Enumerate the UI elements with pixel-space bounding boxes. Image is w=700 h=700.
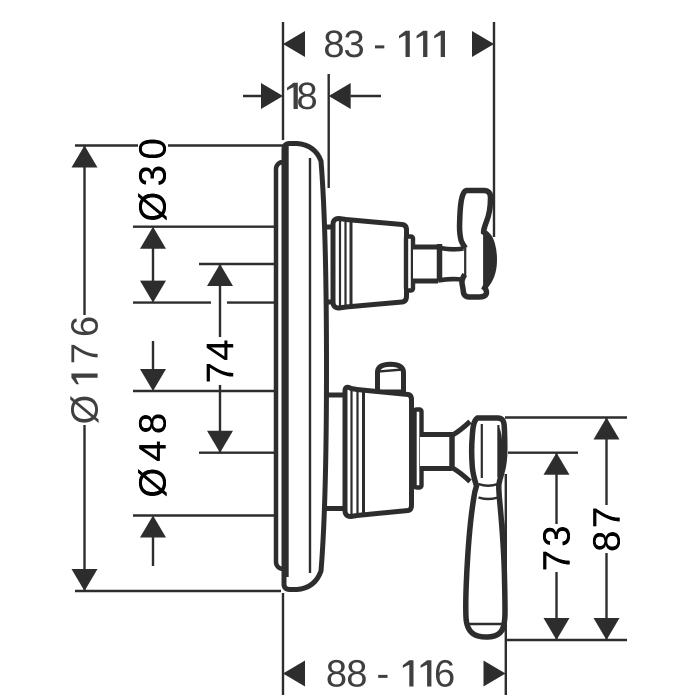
lower connector tube bottom edge bbox=[322, 506, 346, 511]
upper axis extension line bbox=[199, 263, 277, 265]
dim line O176 bbox=[83, 146, 85, 592]
lower sleeve end collar bbox=[415, 410, 422, 488]
arrow O176 down bbox=[72, 569, 98, 591]
lower valve sleeve bbox=[345, 387, 412, 516]
label O30 (rotated) bbox=[138, 140, 166, 220]
arrow 88-116 right bbox=[484, 661, 506, 687]
arrow O176 up bbox=[72, 146, 98, 168]
lower sleeve ring line 1 bbox=[350, 390, 352, 515]
plate bottom extension line bbox=[75, 590, 281, 592]
dim line 87 bbox=[605, 418, 607, 641]
dimension texts (as paths) bbox=[70, 30, 620, 687]
label 73 (rotated) bbox=[543, 527, 570, 569]
label 87 (rotated) bbox=[593, 509, 620, 550]
label O30 (rotated) bbox=[138, 140, 166, 220]
arrow 87 down bbox=[594, 618, 620, 640]
dimension arrowheads bbox=[72, 31, 620, 687]
concealed body slab behind plate bbox=[276, 162, 294, 569]
lever knob crescent bbox=[498, 425, 502, 477]
dim line 73 bbox=[555, 453, 557, 640]
label 88-116 bbox=[328, 660, 454, 687]
plate-depth extension line bbox=[328, 74, 330, 188]
dim line O48 upper shaft bbox=[152, 341, 154, 370]
dim line O48 lower shaft bbox=[152, 537, 154, 566]
upper stem fill bbox=[413, 247, 438, 281]
upper sleeve ring line 1 bbox=[339, 220, 341, 307]
upper stem top edge bbox=[412, 245, 438, 250]
dim 18 right shaft bbox=[351, 95, 381, 97]
label 18 bbox=[287, 82, 316, 109]
label 74 (rotated) bbox=[207, 341, 233, 382]
upper hub cone bottom bbox=[438, 279, 464, 280]
arrow 83-111 right bbox=[472, 31, 494, 57]
upper sleeve top extension line bbox=[133, 225, 277, 227]
lower hub fill bbox=[452, 422, 470, 482]
label 74 (rotated) bbox=[207, 341, 233, 382]
lever handle knob + arm bbox=[466, 418, 505, 637]
cross handle crescent edge line bbox=[483, 233, 485, 290]
upper connector tube top edge bbox=[322, 225, 334, 230]
wall extension line bottom bbox=[282, 593, 284, 695]
arrow 74 up bbox=[207, 264, 233, 286]
upper connector tube bottom edge bbox=[322, 300, 334, 305]
label 73 (rotated) bbox=[543, 527, 570, 569]
label O176 (rotated) bbox=[70, 318, 98, 424]
plate top extension line bbox=[75, 144, 287, 146]
cross handle hub edge bbox=[464, 246, 466, 276]
lower sleeve bottom extension line bbox=[133, 514, 277, 516]
upper valve sleeve bbox=[333, 219, 407, 309]
label 74 (rotated) bbox=[207, 341, 233, 382]
dim line O30 shaft bbox=[152, 248, 154, 282]
arrow 18 left bbox=[261, 83, 283, 109]
lever knob crescent edge bbox=[497, 425, 499, 477]
lever-face extension line bbox=[505, 474, 507, 695]
label O48 (rotated) bbox=[138, 415, 166, 497]
lower sleeve body edge bbox=[362, 390, 365, 515]
lever neck seam lower bbox=[479, 498, 499, 500]
lower hub flange bbox=[449, 432, 455, 471]
lever neck seam upper bbox=[479, 484, 498, 486]
lower axis extension line bbox=[199, 452, 277, 454]
plate inner contour line 1 bbox=[286, 146, 288, 577]
label 87 (rotated) bbox=[593, 509, 620, 550]
arrow 73 down bbox=[544, 618, 570, 640]
upper sleeve body edge bbox=[350, 220, 353, 307]
arrow O48 up (outside below) bbox=[140, 516, 166, 538]
lower hub cone top bbox=[454, 422, 471, 435]
label O48 (rotated) bbox=[138, 415, 166, 497]
text backers bbox=[70, 136, 621, 572]
arrow 83-111 left bbox=[283, 31, 305, 57]
label 83-111 bbox=[325, 30, 445, 57]
dim 18 left shaft bbox=[243, 95, 261, 97]
upper hub cone top bbox=[438, 248, 464, 250]
arrow 73 up bbox=[544, 453, 570, 475]
label O30 (rotated) bbox=[138, 140, 166, 220]
lever knob inner contour bbox=[481, 424, 483, 478]
lower sleeve top extension line bbox=[133, 390, 277, 392]
label O48 (rotated) bbox=[138, 415, 166, 497]
cross handle outline bbox=[460, 191, 495, 298]
arrow 87 up bbox=[594, 418, 620, 440]
lower stem bottom edge bbox=[420, 466, 452, 471]
label 87 (rotated) bbox=[593, 509, 620, 550]
arrow O30 down bbox=[140, 281, 166, 303]
safety stop knob dome seam bbox=[379, 370, 403, 372]
label O30 (rotated) bbox=[138, 140, 166, 220]
arrow 18 right bbox=[329, 83, 351, 109]
lever tip extension line bbox=[507, 639, 627, 641]
arrow O48 down (outside above) bbox=[140, 369, 166, 391]
plate inner contour line 2 bbox=[309, 158, 311, 573]
arrow O30 up bbox=[140, 227, 166, 249]
safety stop knob on lower sleeve bbox=[378, 364, 404, 392]
upper hub flange bbox=[437, 244, 443, 281]
label 73 (rotated) bbox=[543, 527, 570, 569]
upper hub fill bbox=[438, 247, 464, 281]
lower hub cone bottom bbox=[454, 469, 471, 482]
label 74 (rotated) bbox=[207, 341, 233, 382]
label 87 (rotated) bbox=[593, 509, 620, 550]
label O48 (rotated) bbox=[138, 415, 166, 497]
escutcheon plate (side view) bbox=[284, 144, 327, 590]
wall extension line top bbox=[282, 22, 284, 140]
upper stem bottom edge bbox=[412, 279, 438, 284]
lever knob top extension line bbox=[505, 416, 627, 418]
upper sleeve bottom extension line bbox=[133, 301, 211, 303]
lever cap seam bbox=[465, 623, 504, 625]
lower axis right extension line bbox=[508, 452, 578, 454]
lower stem top edge bbox=[420, 432, 452, 437]
lower sleeve ring line 2 bbox=[356, 390, 358, 515]
lower stem fill bbox=[420, 435, 452, 469]
lower connector tube top edge bbox=[322, 393, 346, 398]
upper sleeve end collar bbox=[406, 237, 413, 291]
arrow 74 down bbox=[207, 431, 233, 453]
cross handle front-spoke crescent bbox=[484, 232, 495, 288]
cross handle silhouette fill bbox=[460, 191, 495, 298]
dim line 74 shaft bbox=[219, 264, 221, 453]
arrow 88-116 left bbox=[283, 661, 305, 687]
handle-face extension line bbox=[493, 22, 495, 237]
upper sleeve ring line 2 bbox=[344, 220, 346, 307]
label 73 (rotated) bbox=[543, 527, 570, 569]
